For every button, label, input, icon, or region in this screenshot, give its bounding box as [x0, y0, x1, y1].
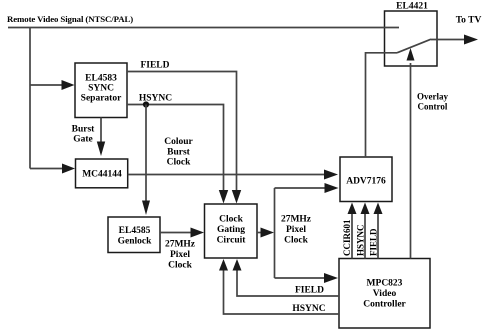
- wire pixel clock into ADV7176: [275, 187, 326, 189]
- wire HSYNC feedback MPC823 to clock gating: [224, 270, 340, 314]
- wire FIELD feedback MPC823 to clock gating: [237, 270, 339, 296]
- wire left vertical drop: [29, 28, 31, 169]
- svg-text:Pixel: Pixel: [286, 225, 306, 235]
- svg-text:MC44144: MC44144: [82, 170, 122, 180]
- block MC44144: [76, 159, 128, 188]
- svg-text:Colour: Colour: [164, 137, 193, 147]
- svg-text:Clock: Clock: [168, 261, 192, 271]
- wire remote video signal main line: [8, 27, 399, 29]
- svg-text:Gating: Gating: [217, 225, 245, 235]
- svg-text:Controller: Controller: [363, 300, 406, 310]
- svg-text:HSYNC: HSYNC: [292, 304, 325, 314]
- svg-text:27MHz: 27MHz: [165, 240, 196, 250]
- svg-text:Clock: Clock: [167, 158, 191, 168]
- wire pixel clock into MPC823: [275, 277, 325, 279]
- svg-text:HSYNC: HSYNC: [139, 94, 172, 104]
- svg-text:FIELD: FIELD: [295, 286, 324, 296]
- svg-text:To TV: To TV: [456, 16, 482, 26]
- svg-text:FIELD: FIELD: [140, 61, 169, 71]
- wire HSYNC from EL4583 to clock gating: [127, 105, 224, 192]
- wire To TV output: [431, 39, 465, 41]
- block EL4585 Genlock: [108, 217, 160, 253]
- svg-text:Gate: Gate: [73, 135, 93, 145]
- wire FIELD from EL4583 to clock gating: [127, 72, 237, 192]
- wire EL4585 genlock output to clock gating: [160, 232, 191, 234]
- wire 27MHz pixel clock bus vertical: [274, 188, 276, 278]
- wire FIELD riser MPC823 to ADV7176: [377, 214, 379, 259]
- wire HSYNC drop into EL4585 genlock: [145, 105, 147, 202]
- wire switch blade inside EL4421: [397, 39, 431, 53]
- svg-text:Genlock: Genlock: [118, 237, 152, 247]
- svg-text:27MHz: 27MHz: [281, 215, 312, 225]
- wire overlay control MPC823 to EL4421: [410, 63, 412, 259]
- svg-text:Circuit: Circuit: [217, 236, 247, 246]
- block Clock Gating Circuit: [205, 204, 258, 258]
- wire ADV7176 output up to EL4421: [366, 53, 398, 157]
- svg-text:HSYNC: HSYNC: [355, 224, 365, 256]
- svg-text:ADV7176: ADV7176: [346, 177, 386, 187]
- svg-text:MPC823: MPC823: [367, 279, 403, 289]
- block MPC823 Video Controller: [339, 259, 430, 329]
- svg-text:Pixel: Pixel: [170, 250, 190, 260]
- svg-text:EL4585: EL4585: [119, 226, 151, 236]
- wire clock gating output to pixel clock bus: [257, 232, 262, 234]
- svg-text:Video: Video: [373, 289, 397, 299]
- svg-text:EL4583: EL4583: [85, 74, 117, 84]
- svg-text:Clock: Clock: [284, 236, 308, 246]
- block EL4421 video switch: [385, 2, 438, 67]
- svg-text:CCIR601: CCIR601: [342, 219, 352, 256]
- svg-text:Remote Video Signal (NTSC/PAL): Remote Video Signal (NTSC/PAL): [7, 14, 133, 24]
- svg-text:Burst: Burst: [72, 125, 96, 135]
- svg-text:Overlay: Overlay: [417, 92, 448, 102]
- block ADV7176: [340, 157, 392, 202]
- node HSYNC junction dot: [143, 101, 149, 107]
- block EL4583 SYNC Separator: [75, 63, 127, 118]
- svg-text:Burst: Burst: [167, 147, 191, 157]
- svg-text:FIELD: FIELD: [368, 228, 378, 256]
- wire HSYNC riser MPC823 to ADV7176: [364, 214, 366, 259]
- wire CCIR601 riser MPC823 to ADV7176: [351, 214, 353, 259]
- svg-text:Separator: Separator: [81, 94, 122, 104]
- svg-text:Control: Control: [418, 102, 448, 112]
- svg-text:EL4421: EL4421: [396, 2, 428, 12]
- wire branch into EL4583: [30, 84, 62, 86]
- wire branch into MC44144: [30, 168, 62, 170]
- wire MC44144 colour burst clock to ADV7176: [128, 174, 325, 176]
- wire burst gate arrow EL4583 to MC44144: [100, 118, 102, 143]
- svg-text:SYNC: SYNC: [88, 84, 114, 94]
- svg-text:Clock: Clock: [219, 215, 243, 225]
